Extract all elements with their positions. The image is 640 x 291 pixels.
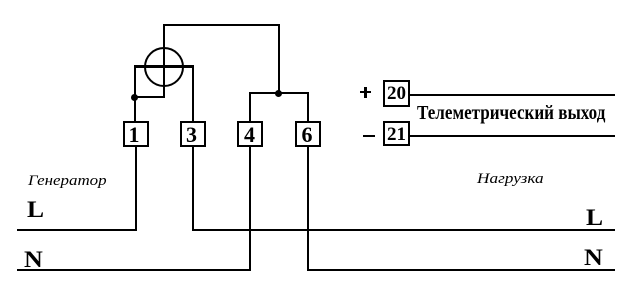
label: N (load) (584, 246, 603, 269)
junction dot B (above terminals 4/6) (275, 90, 282, 97)
minus sign (telemetry -) (363, 135, 375, 137)
plus sign (telemetry +) (360, 91, 371, 93)
L line left segment (generator side) (17, 229, 136, 231)
wire: top loop horizontal (163, 24, 280, 26)
junction dot A (above terminal 1) (131, 94, 138, 101)
wire from terminal 20 (410, 94, 615, 96)
label: N (generator) (24, 248, 43, 271)
current transformer circle (144, 47, 184, 87)
wire: horizontal from circle column to junction above terminal 1 (134, 96, 165, 98)
wire: top loop right vertical (278, 24, 280, 94)
wire: terminal 3 down to L line (192, 147, 194, 231)
terminal box 1 (123, 121, 149, 147)
terminal box 6 (295, 121, 321, 147)
N line right segment (load side) (307, 269, 616, 271)
wire from terminal 21 (410, 135, 615, 137)
terminal box 4 (237, 121, 263, 147)
terminal box 21 (383, 121, 410, 147)
wire: terminal 6 down to N line (307, 147, 309, 271)
N line left segment (generator side) (17, 269, 251, 271)
label: Телеметрический выход (417, 103, 605, 123)
label: Генератор (28, 174, 107, 189)
terminal box 20 (383, 80, 410, 107)
wire: terminal 4 down to N line (249, 147, 251, 271)
label: L (generator) (27, 198, 44, 221)
wire: down to terminal 6 (307, 92, 309, 121)
wire: terminal 1 down to L line (135, 147, 137, 231)
label: Нагрузка (477, 172, 544, 187)
wire: bar right end down to terminal 3 (192, 65, 194, 121)
thick conductor bar through CT (134, 65, 194, 68)
wire: horizontal above terminals 4 and 6 (249, 92, 309, 94)
wire: vertical through CT circle (163, 24, 165, 98)
terminal box 3 (180, 121, 206, 147)
L line right segment (load side) (192, 229, 616, 231)
wire: down to terminal 4 (249, 92, 251, 121)
wire: bar left end down to terminal 1 (134, 65, 136, 121)
label: L (load) (586, 206, 603, 229)
